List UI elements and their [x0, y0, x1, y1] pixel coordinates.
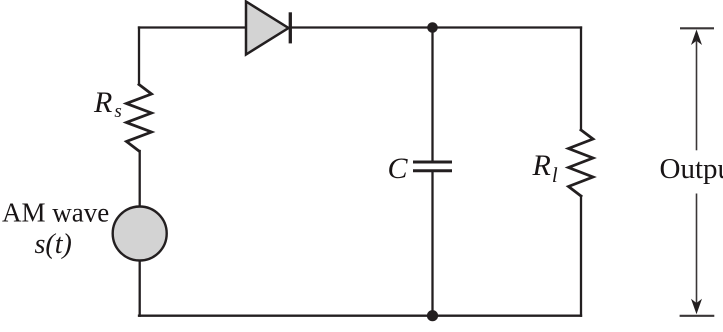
- svg-text:s(t): s(t): [35, 229, 72, 260]
- svg-text:Output: Output: [660, 153, 723, 185]
- svg-text:AM wave: AM wave: [2, 198, 109, 228]
- svg-text:C: C: [388, 152, 409, 185]
